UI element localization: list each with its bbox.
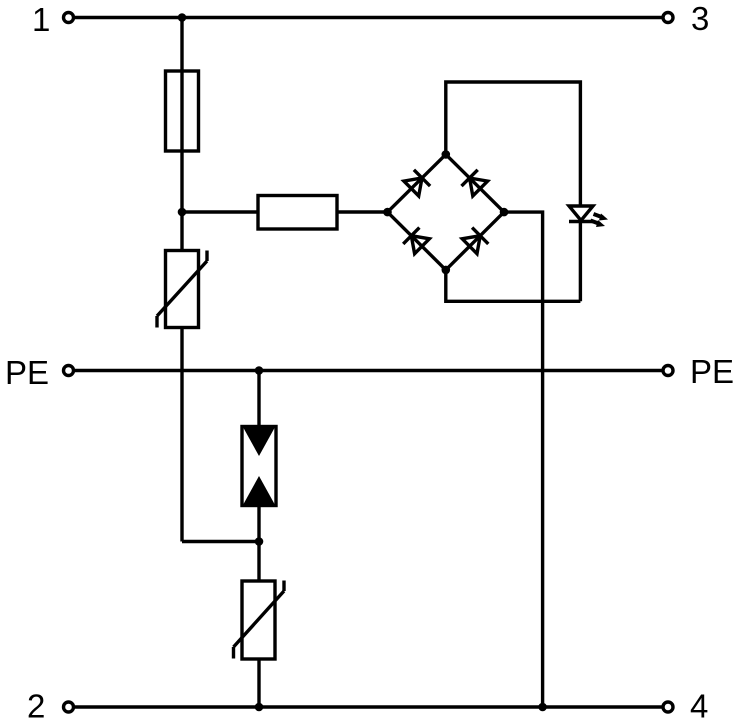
node junction lower	[255, 537, 264, 546]
bridge arm top-left	[388, 154, 446, 212]
svg-text:2: 2	[27, 688, 45, 725]
wire PE junction to suppressor	[257, 371, 260, 427]
varistor top	[157, 251, 207, 328]
terminal PE left	[64, 366, 74, 376]
terminal 4	[663, 702, 673, 712]
terminal 2	[64, 702, 74, 712]
terminal 1	[64, 13, 74, 23]
wire bridge right to bottom rail	[504, 212, 543, 707]
svg-text:PE: PE	[5, 354, 49, 391]
LED arrow 2	[591, 220, 606, 227]
svg-text:1: 1	[32, 1, 50, 38]
node bridge right	[500, 208, 509, 217]
wire top rail	[75, 16, 662, 19]
wire PE rail	[75, 369, 662, 372]
LED arrow 1	[594, 214, 609, 221]
bridge arm bottom-right	[446, 212, 504, 270]
wire suppressor to junction	[257, 506, 260, 582]
bridge arm top-right	[446, 154, 504, 212]
node bridge left	[383, 208, 392, 217]
terminal 3	[663, 13, 673, 23]
wire bridge top to LED top	[446, 82, 581, 206]
node junction on top rail	[178, 13, 187, 22]
svg-text:PE: PE	[690, 353, 734, 390]
node junction bottom left	[255, 703, 264, 712]
wire junction to resistor	[182, 210, 258, 213]
node junction on PE rail	[255, 366, 264, 375]
wire LED bottom	[579, 222, 582, 302]
fuse F1	[166, 71, 199, 151]
terminal PE right	[663, 366, 673, 376]
node bridge bottom	[442, 266, 451, 275]
varistor bottom	[234, 581, 285, 660]
suppressor (bidirectional diode)	[242, 427, 276, 506]
wire varistor to bottom rail	[257, 659, 260, 707]
svg-text:4: 4	[690, 688, 708, 725]
wire bottom rail	[75, 705, 662, 708]
node bridge top	[442, 150, 451, 159]
bridge arm bottom-left	[388, 212, 446, 270]
svg-text:3: 3	[691, 0, 709, 37]
node junction mid	[178, 208, 187, 217]
wire bridge bottom loop	[446, 270, 581, 301]
wire corner to junction	[182, 540, 259, 543]
diode V1 top-left	[404, 170, 430, 196]
diode V2 top-right	[462, 170, 488, 196]
wire vertical through fuse	[180, 18, 183, 251]
wire varistor to corner	[180, 328, 183, 542]
wire resistor to bridge	[337, 210, 388, 213]
diode V4 bottom-right	[462, 228, 488, 254]
resistor R1	[258, 196, 337, 230]
LED	[569, 206, 593, 222]
diode V3 bottom-left	[403, 228, 429, 254]
node junction bottom right	[538, 703, 547, 712]
